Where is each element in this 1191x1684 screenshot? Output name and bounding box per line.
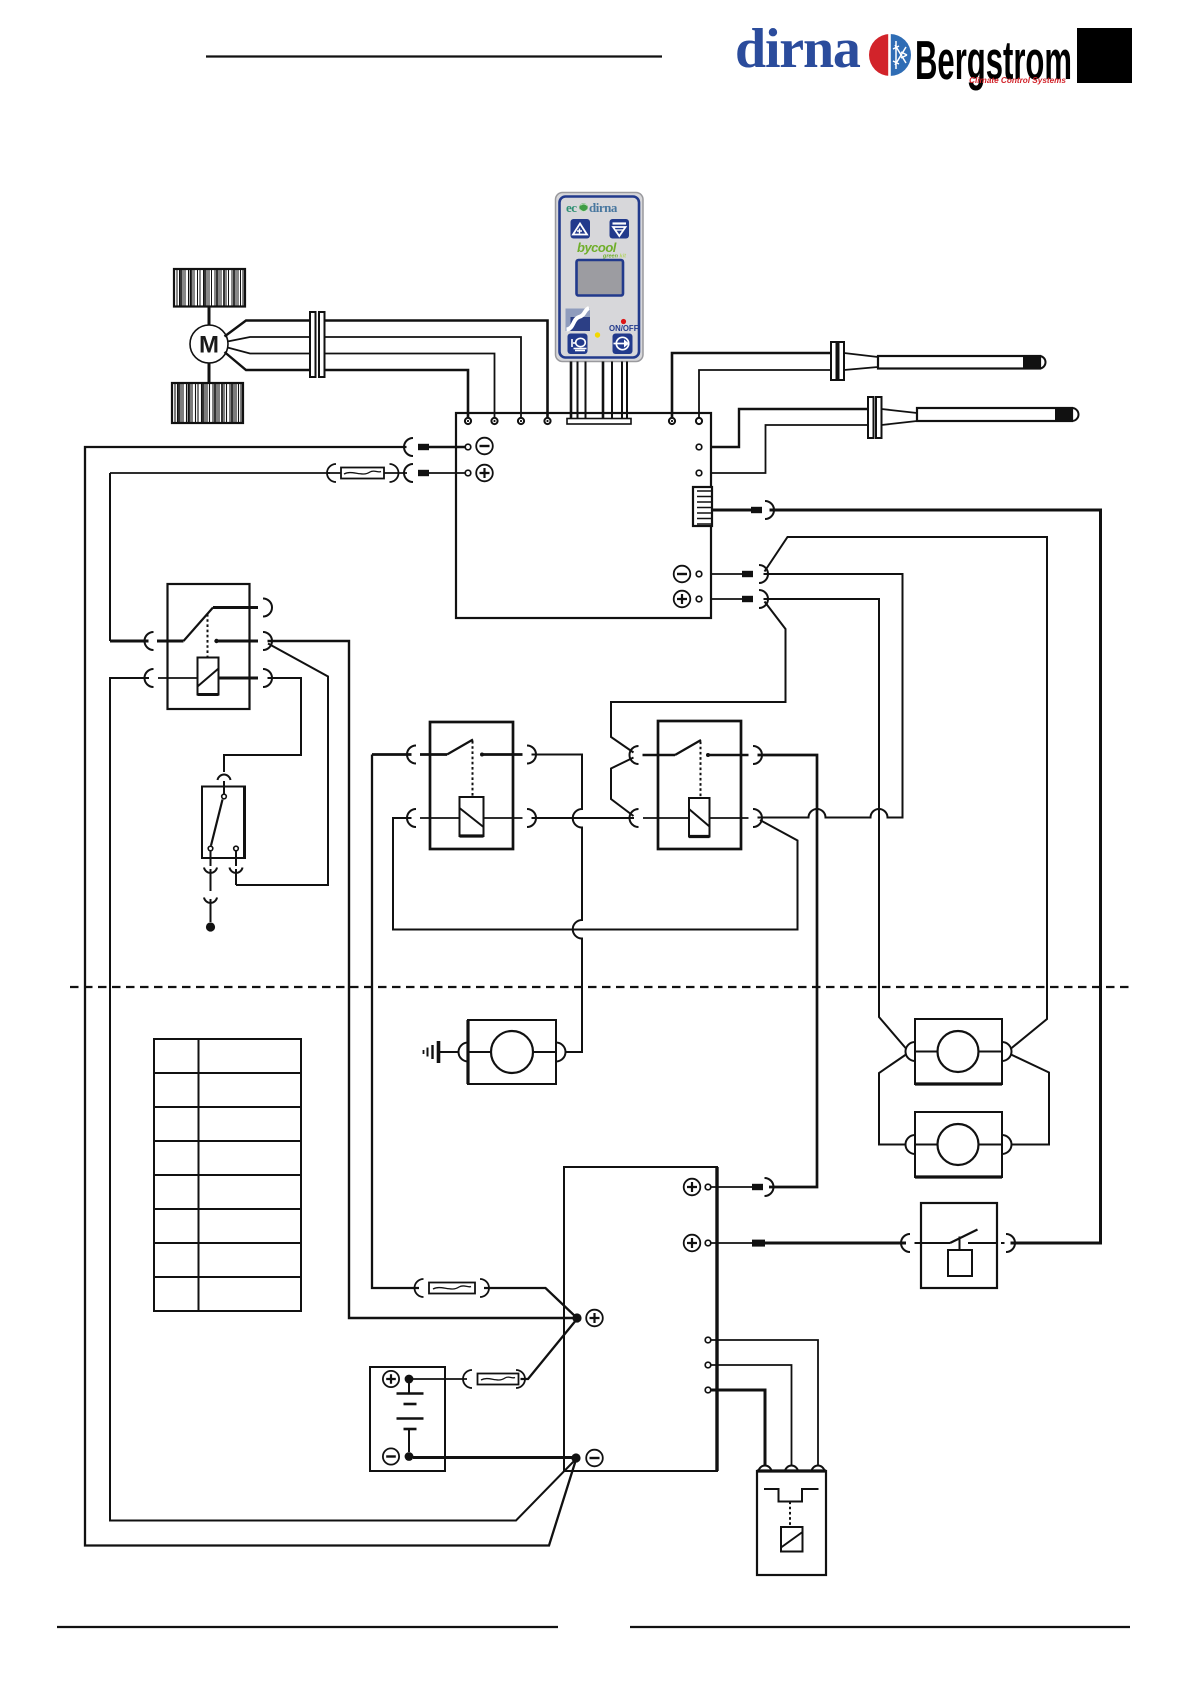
relay K3 link (dotted) xyxy=(700,742,702,799)
relay K2 lever xyxy=(447,740,473,755)
svg-text:Climate Control Systems: Climate Control Systems xyxy=(969,76,1066,85)
terminal plus left xyxy=(465,470,471,476)
terminal row on top edge xyxy=(465,418,471,424)
cab switch S1 box xyxy=(202,787,245,859)
chassis ground xyxy=(424,1041,459,1063)
wire K3 NO down to heater unit plus xyxy=(758,755,818,1187)
blower wheel bottom (hatched) xyxy=(172,383,243,423)
connector minus right xyxy=(711,573,742,575)
wire to cab probe upper xyxy=(711,409,868,447)
wire plus left down to relay K1 xyxy=(109,473,111,641)
duct temperature probe B1 xyxy=(844,353,1046,370)
panel harness wires xyxy=(570,362,573,420)
connector arc K3 common xyxy=(630,746,639,764)
wire lead4 to control unit xyxy=(325,370,469,418)
red LED xyxy=(621,319,626,324)
terminal plus right xyxy=(674,591,691,608)
relay K3 coil right wire xyxy=(710,817,749,819)
motor lead 4 xyxy=(225,352,311,370)
wire to cab probe lower xyxy=(711,425,868,473)
LCD display xyxy=(577,260,624,296)
button on/off xyxy=(613,334,633,355)
header rule xyxy=(206,55,662,57)
multipin connector on right edge xyxy=(693,487,712,526)
wire to duct probe upper xyxy=(672,353,831,418)
cab switch right pole wire xyxy=(235,851,237,866)
connector arc above cab switch xyxy=(218,775,231,780)
battery minus wire xyxy=(413,1456,572,1459)
terminal minus left xyxy=(465,444,471,450)
button temp up xyxy=(571,219,591,239)
relay K1 coil left wire xyxy=(158,677,198,679)
right-edge terminals to cab probe xyxy=(696,444,702,450)
relay K1 coil right wire xyxy=(219,677,259,680)
yellow LED xyxy=(595,332,600,337)
wire K1 NO to plus node xyxy=(268,641,574,1318)
footer rule right xyxy=(630,1626,1130,1628)
svg-text:ec: ec xyxy=(566,200,577,215)
terminal minus right xyxy=(674,566,691,583)
relay K2 coil xyxy=(460,797,484,836)
terminal plus to pressure switch xyxy=(684,1235,701,1252)
legend table xyxy=(154,1039,301,1311)
condenser fan M4 xyxy=(906,1112,1012,1177)
relay K2 coil right wire xyxy=(484,817,523,819)
svg-text:ON/OFF: ON/OFF xyxy=(609,324,639,333)
dirna logo globe xyxy=(869,34,911,76)
blower wheel top (hatched) xyxy=(174,269,245,307)
wire minus loop to battery minus node xyxy=(85,447,576,1546)
glow plug wires xyxy=(711,1340,818,1465)
relay K3 coil left wire xyxy=(643,817,689,819)
compressor clutch M2 xyxy=(459,1020,582,1084)
svg-text:M: M xyxy=(199,332,219,359)
relay K3 box xyxy=(658,721,741,849)
wire K1 coil to ground loop xyxy=(110,678,576,1521)
panel connector strip on control unit xyxy=(567,419,631,425)
wire plus left with connector xyxy=(429,472,465,474)
minus symbol xyxy=(476,438,493,455)
wire minus to condenser fans xyxy=(765,537,1048,1049)
wire K3 coil to minus return (with hops) xyxy=(758,574,903,818)
relay K1 lever xyxy=(184,608,214,642)
blower motor M xyxy=(190,325,228,363)
black square mark xyxy=(1077,28,1132,83)
fan parallel link right xyxy=(1011,1055,1049,1145)
plus symbol xyxy=(476,465,493,482)
relay K2 box xyxy=(430,722,513,849)
wire lead3 to control unit xyxy=(325,354,495,419)
wire K2 coil to K3 coil return xyxy=(393,818,798,930)
motor lead 2 xyxy=(228,337,311,342)
air flow icon xyxy=(566,308,591,331)
probe connector X3 xyxy=(868,397,874,438)
relay K1 NC contact line xyxy=(213,606,258,609)
cab temperature probe B2 xyxy=(882,408,1079,425)
wire K1 NO to cab switch xyxy=(236,644,328,886)
relay K2 coil left wire xyxy=(420,817,460,819)
minus node on heater unit xyxy=(571,1453,580,1462)
firewall separator (dashed) xyxy=(70,986,1130,988)
wire lead1 to control unit xyxy=(325,321,548,419)
motor connector X1 xyxy=(310,312,316,377)
motor lead 3 xyxy=(228,348,311,354)
button compressor xyxy=(568,334,588,355)
pressure switch S2 xyxy=(901,1203,1015,1288)
terminal plus top xyxy=(684,1179,701,1196)
relay K2 common wire xyxy=(372,753,412,756)
wire plus to condenser fans xyxy=(764,599,907,1049)
cab switch ground terminal dot xyxy=(206,922,215,931)
zigzag to coil xyxy=(611,758,634,817)
comb connector wire to pressure switch xyxy=(712,509,751,512)
cab switch contacts xyxy=(222,794,227,799)
cab switch lever xyxy=(211,800,223,846)
connector arc K1 NO xyxy=(263,632,272,650)
cab switch left pole wire xyxy=(210,851,212,866)
button temp down xyxy=(610,219,630,239)
connector arc K1 common xyxy=(145,632,154,650)
wire to pressure switch with plug xyxy=(711,1242,752,1244)
relay K2 NO contact xyxy=(480,753,484,757)
wire K1 coil to cab switch top xyxy=(224,678,301,772)
fan parallel link left xyxy=(879,1055,906,1145)
relay K3 lever xyxy=(675,740,701,755)
svg-text:dirna: dirna xyxy=(589,200,618,215)
wire to duct probe lower xyxy=(699,370,831,418)
relay K3 NO contact xyxy=(706,753,710,757)
battery G1 xyxy=(370,1367,445,1471)
feed zigzag from plus wire xyxy=(611,602,786,753)
svg-text:green kit: green kit xyxy=(602,254,627,260)
fuse F2 xyxy=(415,1279,424,1297)
heater control unit A2 xyxy=(564,1167,717,1471)
relay K3 coil xyxy=(689,798,710,837)
footer rule left xyxy=(57,1626,558,1628)
battery plus wire with fuse F3 xyxy=(413,1378,467,1380)
control unit A1 xyxy=(456,413,711,618)
connector at heater plus xyxy=(765,1178,774,1196)
wire K2 coil to K3 coil left xyxy=(532,817,635,819)
fuse F1 xyxy=(327,472,407,474)
glow plug unit R1 xyxy=(757,1466,826,1575)
connector arc K1 NC (unused) xyxy=(263,599,272,617)
relay K2 link (dotted) xyxy=(472,741,474,797)
connector plus right xyxy=(711,598,742,600)
wire K2 NO down to compressor clutch (with hops) xyxy=(532,755,583,1053)
relay K1 link lever-coil (dotted) xyxy=(207,614,209,657)
relay K1 NO contact xyxy=(214,639,218,643)
probe connector X2 xyxy=(831,342,837,380)
wire K2 common to fuse F2 and plus node xyxy=(372,755,419,1289)
ecodirna logo text xyxy=(566,200,618,215)
wire minus left with connector xyxy=(429,446,465,448)
relay K1 coil xyxy=(198,658,219,695)
plus node on heater unit xyxy=(572,1313,581,1322)
svg-text:dirna: dirna xyxy=(735,18,861,80)
motor lead 1 xyxy=(225,321,311,337)
motor shaft wires xyxy=(208,307,211,326)
relay K1 common wire from +feed xyxy=(110,640,149,643)
wire lead2 to control unit xyxy=(325,337,522,418)
condenser fan M3 xyxy=(906,1019,1012,1084)
control panel U1 (ecodirna keypad) xyxy=(556,193,644,362)
heater glow plug terminals xyxy=(705,1337,711,1343)
relay K1 box xyxy=(168,584,250,709)
